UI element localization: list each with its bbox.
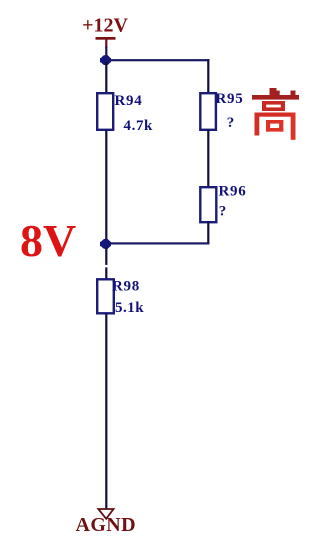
wire (R95 to R96) [207, 130, 209, 188]
resistor R98 [97, 278, 144, 316]
wire (power stub to node) [105, 47, 107, 58]
wire (J1 down to R94) [105, 62, 107, 94]
resistor R96 [200, 183, 246, 222]
wire (R94 down to J2) [105, 130, 107, 244]
power bar symbol [96, 37, 116, 48]
svg-text:+12V: +12V [82, 15, 128, 37]
svg-text:?: ? [227, 115, 235, 131]
svg-text:8V: 8V [20, 215, 76, 266]
annotation 高 (drawn strokes) [252, 88, 299, 140]
wire (J2 down, upper piece) [105, 248, 107, 265]
svg-text:R95: R95 [216, 91, 244, 107]
svg-text:AGND: AGND [76, 514, 137, 536]
wire (right vertical to R95) [207, 59, 209, 93]
svg-text:5.1k: 5.1k [115, 300, 144, 316]
svg-text:4.7k: 4.7k [124, 118, 154, 134]
resistor R94 [97, 93, 153, 134]
wire (R96 down to corner) [207, 222, 209, 245]
resistor R95 [200, 91, 243, 131]
ground AGND symbol [76, 509, 137, 536]
node junction J1 [100, 56, 111, 65]
svg-text:R94: R94 [115, 93, 143, 109]
svg-text:R96: R96 [219, 183, 247, 199]
svg-text:?: ? [219, 203, 227, 219]
svg-text:R98: R98 [112, 278, 140, 294]
wire (R98 down to ground) [105, 313, 107, 509]
node junction J2 [100, 240, 111, 249]
wire (J2 down, lower piece after gap) [105, 267, 107, 279]
wire (top horizontal) [106, 59, 209, 61]
wire (bottom horizontal to node J2) [106, 242, 209, 244]
